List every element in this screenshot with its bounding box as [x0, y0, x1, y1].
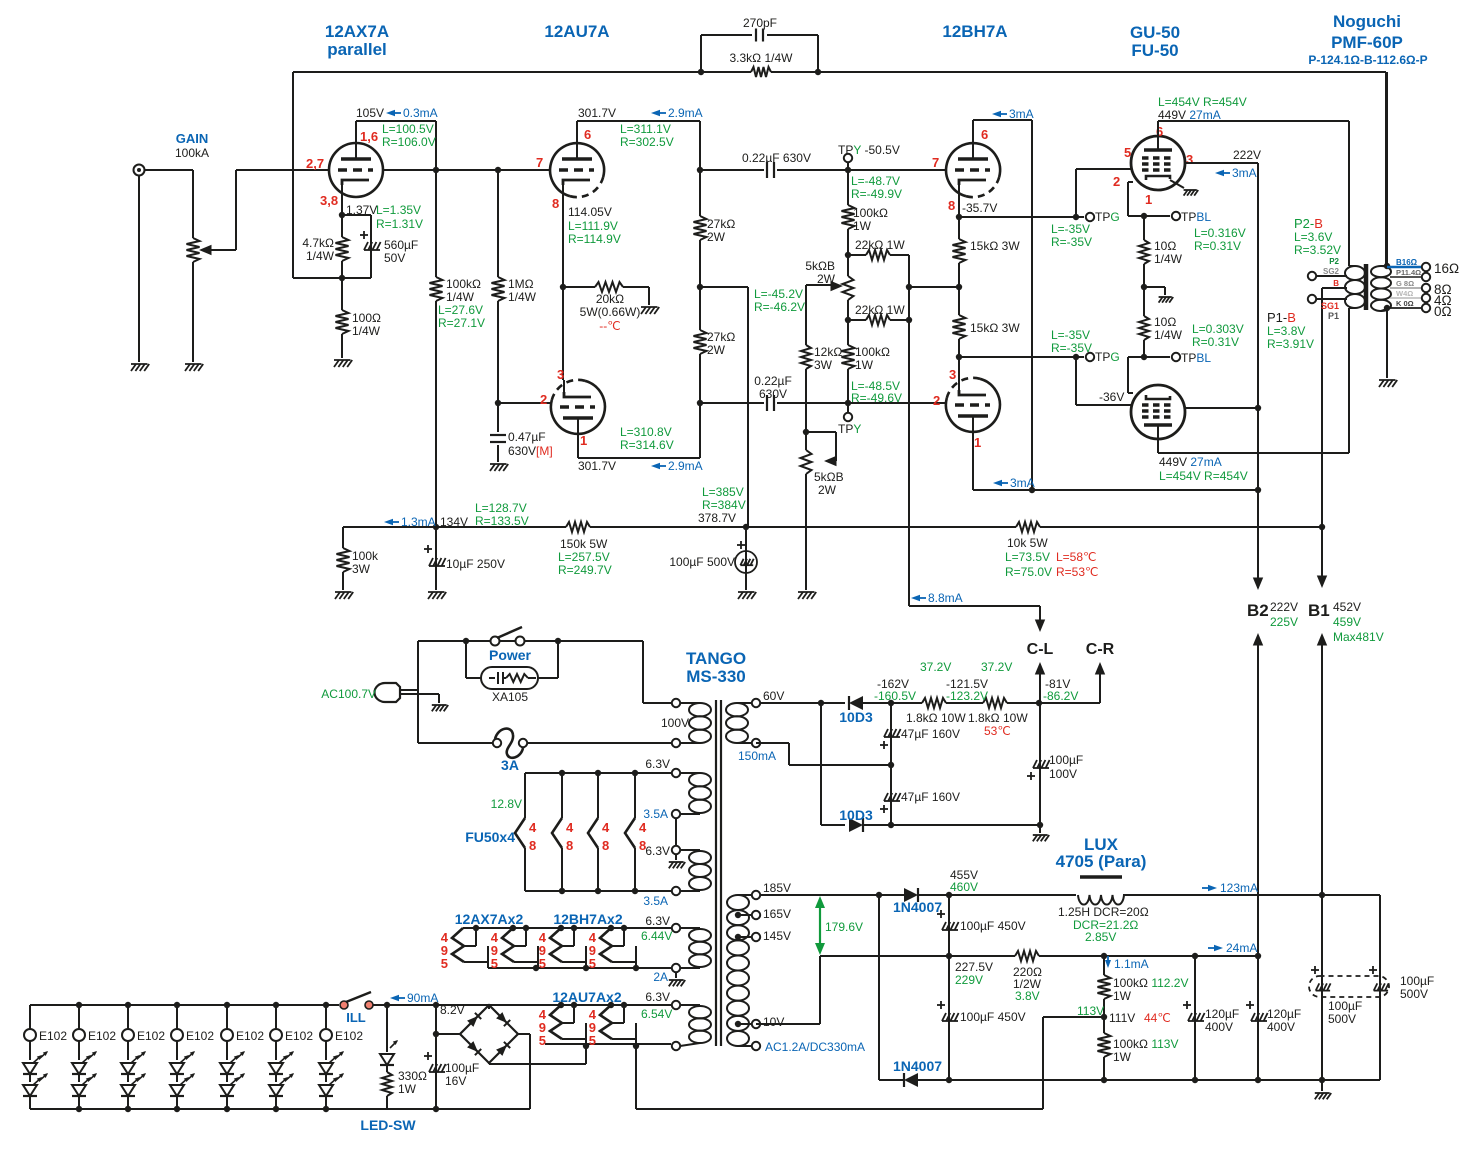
- svg-text:53℃: 53℃: [984, 724, 1011, 738]
- svg-text:16Ω: 16Ω: [1434, 261, 1459, 276]
- svg-text:R=302.5V: R=302.5V: [620, 135, 674, 149]
- svg-text:TPY: TPY: [838, 422, 861, 436]
- svg-text:GU-50: GU-50: [1130, 23, 1180, 42]
- svg-text:10Ω: 10Ω: [1154, 239, 1176, 253]
- svg-text:L=454V R=454V: L=454V R=454V: [1159, 469, 1248, 483]
- svg-text:120µF: 120µF: [1267, 1007, 1301, 1021]
- svg-text:TANGO: TANGO: [686, 649, 746, 668]
- svg-text:449V 27mA: 449V 27mA: [1158, 108, 1221, 122]
- svg-text:-160.5V: -160.5V: [874, 689, 916, 703]
- svg-text:3mA: 3mA: [1232, 166, 1257, 180]
- svg-text:6: 6: [584, 127, 591, 142]
- svg-text:PMF-60P: PMF-60P: [1331, 33, 1403, 52]
- svg-text:Noguchi: Noguchi: [1333, 12, 1401, 31]
- svg-text:12AX7A: 12AX7A: [325, 22, 389, 41]
- svg-text:1.8kΩ 10W: 1.8kΩ 10W: [906, 711, 966, 725]
- svg-text:2: 2: [540, 392, 547, 407]
- svg-text:1W: 1W: [1113, 989, 1132, 1003]
- svg-text:6.3V: 6.3V: [645, 990, 670, 1004]
- svg-text:R=75.0V: R=75.0V: [1005, 565, 1052, 579]
- svg-text:3.3kΩ 1/4W: 3.3kΩ 1/4W: [730, 51, 794, 65]
- svg-text:1/4W: 1/4W: [352, 324, 381, 338]
- svg-text:10V: 10V: [763, 1015, 784, 1029]
- svg-text:-86.2V: -86.2V: [1043, 689, 1078, 703]
- svg-text:100V: 100V: [1049, 767, 1077, 781]
- svg-text:44℃: 44℃: [1144, 1011, 1171, 1025]
- svg-text:4: 4: [529, 820, 537, 835]
- svg-text:225V: 225V: [1270, 615, 1298, 629]
- svg-text:E102: E102: [236, 1029, 264, 1043]
- svg-text:5: 5: [589, 956, 596, 971]
- svg-text:R=-35V: R=-35V: [1051, 341, 1092, 355]
- svg-text:20kΩ: 20kΩ: [596, 292, 624, 306]
- svg-text:3mA: 3mA: [1009, 107, 1034, 121]
- svg-text:Power: Power: [489, 647, 532, 663]
- svg-text:B: B: [1333, 279, 1339, 288]
- svg-text:10k 5W: 10k 5W: [1007, 536, 1048, 550]
- svg-text:L=454V R=454V: L=454V R=454V: [1158, 95, 1247, 109]
- svg-text:L=-45.2V: L=-45.2V: [754, 287, 803, 301]
- svg-text:12AU7A: 12AU7A: [544, 22, 609, 41]
- svg-text:460V: 460V: [950, 880, 978, 894]
- svg-text:AC100.7V: AC100.7V: [321, 687, 376, 701]
- svg-text:3.8V: 3.8V: [1015, 989, 1040, 1003]
- svg-text:1/4W: 1/4W: [1154, 252, 1183, 266]
- svg-text:1/4W: 1/4W: [1154, 328, 1183, 342]
- svg-text:3.5A: 3.5A: [643, 807, 668, 821]
- svg-text:L=73.5V: L=73.5V: [1005, 550, 1050, 564]
- svg-text:0.47µF: 0.47µF: [508, 430, 546, 444]
- svg-text:5W(0.66W): 5W(0.66W): [580, 305, 641, 319]
- svg-text:179.6V: 179.6V: [825, 920, 863, 934]
- svg-text:P2-B: P2-B: [1294, 216, 1323, 231]
- svg-text:6.3V: 6.3V: [645, 914, 670, 928]
- svg-text:L=3.6V: L=3.6V: [1294, 230, 1332, 244]
- svg-text:L=385V: L=385V: [702, 485, 744, 499]
- svg-text:1.1mA: 1.1mA: [1114, 957, 1149, 971]
- svg-text:5: 5: [1124, 145, 1131, 160]
- svg-text:LED-SW: LED-SW: [360, 1117, 416, 1133]
- svg-text:1N4007: 1N4007: [893, 1058, 942, 1074]
- svg-text:10Ω: 10Ω: [1154, 315, 1176, 329]
- svg-text:2.9mA: 2.9mA: [668, 106, 703, 120]
- svg-text:-123.2V: -123.2V: [946, 689, 988, 703]
- svg-text:100kΩ 113V: 100kΩ 113V: [1113, 1037, 1178, 1051]
- svg-text:TPG: TPG: [1095, 210, 1120, 224]
- svg-text:2.9mA: 2.9mA: [668, 459, 703, 473]
- svg-text:301.7V: 301.7V: [578, 106, 616, 120]
- svg-text:5: 5: [491, 956, 498, 971]
- svg-text:12.8V: 12.8V: [491, 797, 522, 811]
- svg-text:100µF: 100µF: [1049, 753, 1083, 767]
- svg-text:301.7V: 301.7V: [578, 459, 616, 473]
- svg-text:L=-35V: L=-35V: [1051, 222, 1090, 236]
- svg-text:2,7: 2,7: [306, 156, 324, 171]
- svg-text:1,6: 1,6: [360, 129, 378, 144]
- svg-text:L=0.316V: L=0.316V: [1194, 226, 1246, 240]
- svg-text:L=-48.7V: L=-48.7V: [851, 174, 900, 188]
- svg-text:3W: 3W: [352, 562, 371, 576]
- svg-text:TPG: TPG: [1095, 350, 1120, 364]
- svg-text:60V: 60V: [763, 689, 784, 703]
- svg-text:L=3.8V: L=3.8V: [1267, 324, 1305, 338]
- svg-text:TPY -50.5V: TPY -50.5V: [838, 143, 900, 157]
- svg-text:R=384V: R=384V: [702, 498, 746, 512]
- svg-text:B16Ω: B16Ω: [1396, 258, 1418, 267]
- svg-text:E102: E102: [88, 1029, 116, 1043]
- svg-text:K 0Ω: K 0Ω: [1396, 299, 1414, 308]
- svg-text:3.5A: 3.5A: [643, 894, 668, 908]
- svg-text:1: 1: [974, 435, 981, 450]
- svg-text:G 8Ω: G 8Ω: [1396, 279, 1414, 288]
- svg-text:FU50x4: FU50x4: [465, 829, 515, 845]
- svg-text:5: 5: [441, 956, 448, 971]
- svg-text:2: 2: [933, 393, 940, 408]
- svg-text:150k 5W: 150k 5W: [560, 537, 608, 551]
- svg-text:5: 5: [589, 1033, 596, 1048]
- svg-text:2W: 2W: [707, 343, 726, 357]
- svg-text:50V: 50V: [384, 251, 405, 265]
- svg-text:2: 2: [1113, 174, 1120, 189]
- svg-text:8.8mA: 8.8mA: [928, 591, 963, 605]
- svg-text:R=0.31V: R=0.31V: [1192, 335, 1239, 349]
- svg-text:L=311.1V: L=311.1V: [620, 122, 671, 136]
- svg-text:47µF 160V: 47µF 160V: [901, 727, 960, 741]
- svg-text:P-124.1Ω-B-112.6Ω-P: P-124.1Ω-B-112.6Ω-P: [1308, 53, 1427, 67]
- svg-text:-36V: -36V: [1099, 390, 1124, 404]
- svg-text:E102: E102: [39, 1029, 67, 1043]
- svg-text:1W: 1W: [1113, 1050, 1132, 1064]
- svg-text:100Ω: 100Ω: [352, 311, 381, 325]
- svg-text:1W: 1W: [855, 358, 874, 372]
- svg-text:400V: 400V: [1205, 1020, 1233, 1034]
- svg-text:185V: 185V: [763, 881, 791, 895]
- svg-text:P1-B: P1-B: [1267, 310, 1296, 325]
- svg-text:105V: 105V: [356, 106, 384, 120]
- svg-text:37.2V: 37.2V: [920, 660, 951, 674]
- svg-text:C-R: C-R: [1086, 641, 1115, 658]
- svg-text:L=0.303V: L=0.303V: [1192, 322, 1244, 336]
- svg-text:6.3V: 6.3V: [645, 844, 670, 858]
- svg-text:AC1.2A/DC330mA: AC1.2A/DC330mA: [765, 1040, 865, 1054]
- svg-text:1N4007: 1N4007: [893, 899, 942, 915]
- svg-text:330Ω: 330Ω: [398, 1069, 427, 1083]
- svg-text:L=27.6V: L=27.6V: [438, 303, 483, 317]
- svg-text:378.7V: 378.7V: [698, 511, 736, 525]
- svg-text:100µF 450V: 100µF 450V: [960, 1010, 1026, 1024]
- svg-text:L=128.7V: L=128.7V: [475, 501, 527, 515]
- svg-text:630V[M]: 630V[M]: [508, 444, 553, 458]
- svg-text:R=-49.9V: R=-49.9V: [851, 187, 902, 201]
- svg-text:16V: 16V: [445, 1074, 466, 1088]
- svg-text:3,8: 3,8: [320, 193, 338, 208]
- svg-text:1W: 1W: [398, 1082, 417, 1096]
- svg-text:E102: E102: [285, 1029, 313, 1043]
- svg-text:6.54V: 6.54V: [641, 1007, 672, 1021]
- svg-text:3: 3: [1186, 152, 1193, 167]
- svg-text:1.3mA: 1.3mA: [401, 515, 436, 529]
- svg-text:L=1.35V: L=1.35V: [376, 203, 421, 217]
- svg-text:2.85V: 2.85V: [1085, 930, 1116, 944]
- svg-text:150mA: 150mA: [738, 749, 776, 763]
- svg-text:100kΩ: 100kΩ: [855, 345, 890, 359]
- svg-text:3: 3: [557, 367, 564, 382]
- svg-text:R=133.5V: R=133.5V: [475, 514, 529, 528]
- svg-text:SG1: SG1: [1321, 301, 1339, 311]
- svg-text:12AX7Ax2: 12AX7Ax2: [455, 911, 524, 927]
- svg-text:270pF: 270pF: [743, 16, 777, 30]
- svg-text:parallel: parallel: [327, 40, 387, 59]
- svg-text:114.05V: 114.05V: [568, 205, 612, 219]
- svg-text:1.37V: 1.37V: [346, 203, 377, 217]
- svg-text:--℃: --℃: [599, 319, 620, 333]
- svg-text:100k: 100k: [352, 549, 379, 563]
- svg-text:7: 7: [932, 155, 939, 170]
- svg-text:4: 4: [566, 820, 574, 835]
- svg-text:459V: 459V: [1333, 615, 1361, 629]
- svg-text:E102: E102: [186, 1029, 214, 1043]
- svg-text:560µF: 560µF: [384, 238, 418, 252]
- svg-text:452V: 452V: [1333, 600, 1361, 614]
- svg-text:24mA: 24mA: [1226, 941, 1257, 955]
- svg-text:1/4W: 1/4W: [446, 290, 475, 304]
- svg-text:L=100.5V: L=100.5V: [382, 122, 434, 136]
- svg-text:3A: 3A: [501, 757, 519, 773]
- svg-text:0.22µF: 0.22µF: [754, 374, 792, 388]
- svg-text:R=3.52V: R=3.52V: [1294, 243, 1341, 257]
- svg-text:1/4W: 1/4W: [306, 249, 335, 263]
- svg-text:90mA: 90mA: [407, 991, 438, 1005]
- svg-text:37.2V: 37.2V: [981, 660, 1012, 674]
- svg-text:100kΩ: 100kΩ: [853, 206, 888, 220]
- svg-text:6.44V: 6.44V: [641, 929, 672, 943]
- svg-text:R=114.9V: R=114.9V: [568, 232, 621, 246]
- svg-text:8: 8: [639, 838, 646, 853]
- svg-text:L=58℃: L=58℃: [1056, 550, 1097, 564]
- svg-text:5: 5: [539, 1033, 546, 1048]
- svg-text:-35.7V: -35.7V: [962, 201, 997, 215]
- svg-text:TPBL: TPBL: [1181, 351, 1211, 365]
- svg-text:2A: 2A: [653, 970, 668, 984]
- svg-text:227.5V: 227.5V: [955, 960, 993, 974]
- svg-text:8: 8: [948, 198, 955, 213]
- svg-text:449V 27mA: 449V 27mA: [1159, 455, 1222, 469]
- svg-text:10µF 250V: 10µF 250V: [446, 557, 505, 571]
- svg-text:100µF: 100µF: [1328, 999, 1362, 1013]
- svg-text:15kΩ 3W: 15kΩ 3W: [970, 239, 1020, 253]
- svg-text:22kΩ 1W: 22kΩ 1W: [855, 238, 905, 252]
- svg-text:P1: P1: [1328, 311, 1339, 321]
- svg-text:4.7kΩ: 4.7kΩ: [302, 236, 334, 250]
- svg-text:400V: 400V: [1267, 1020, 1295, 1034]
- svg-text:0Ω: 0Ω: [1434, 304, 1452, 319]
- svg-text:27kΩ: 27kΩ: [707, 217, 735, 231]
- svg-text:3W: 3W: [814, 358, 833, 372]
- svg-text:100µF 500V: 100µF 500V: [669, 555, 735, 569]
- svg-text:1: 1: [1145, 192, 1152, 207]
- svg-text:8: 8: [529, 838, 536, 853]
- svg-text:R=1.31V: R=1.31V: [376, 217, 423, 231]
- svg-text:145V: 145V: [763, 929, 791, 943]
- svg-text:4: 4: [602, 820, 610, 835]
- svg-text:1W: 1W: [853, 219, 872, 233]
- svg-text:W4Ω: W4Ω: [1396, 289, 1413, 298]
- svg-text:R=314.6V: R=314.6V: [620, 438, 674, 452]
- svg-text:100kΩ 112.2V: 100kΩ 112.2V: [1113, 976, 1188, 990]
- svg-text:100kΩ: 100kΩ: [446, 277, 481, 291]
- svg-text:22kΩ 1W: 22kΩ 1W: [855, 303, 905, 317]
- svg-text:R=3.91V: R=3.91V: [1267, 337, 1314, 351]
- svg-text:R=27.1V: R=27.1V: [438, 316, 485, 330]
- svg-text:15kΩ 3W: 15kΩ 3W: [970, 321, 1020, 335]
- svg-text:222V: 222V: [1270, 600, 1298, 614]
- svg-text:120µF: 120µF: [1205, 1007, 1239, 1021]
- svg-text:12kΩ: 12kΩ: [814, 345, 842, 359]
- svg-text:8: 8: [602, 838, 609, 853]
- svg-text:R=106.0V: R=106.0V: [382, 135, 436, 149]
- svg-text:SG2: SG2: [1323, 267, 1340, 276]
- svg-text:L=257.5V: L=257.5V: [558, 550, 610, 564]
- svg-text:6.3V: 6.3V: [645, 757, 670, 771]
- svg-text:L=-35V: L=-35V: [1051, 328, 1090, 342]
- svg-text:1MΩ: 1MΩ: [508, 277, 534, 291]
- svg-text:R=249.7V: R=249.7V: [558, 563, 612, 577]
- svg-text:5kΩB: 5kΩB: [814, 470, 844, 484]
- svg-text:R=0.31V: R=0.31V: [1194, 239, 1241, 253]
- svg-text:165V: 165V: [763, 907, 791, 921]
- svg-text:L=310.8V: L=310.8V: [620, 425, 672, 439]
- svg-text:500V: 500V: [1328, 1012, 1356, 1026]
- svg-text:2W: 2W: [707, 230, 726, 244]
- svg-text:123mA: 123mA: [1220, 881, 1258, 895]
- svg-text:100µF 450V: 100µF 450V: [960, 919, 1026, 933]
- svg-text:1: 1: [580, 433, 587, 448]
- svg-text:R=-46.2V: R=-46.2V: [754, 300, 805, 314]
- svg-text:2W: 2W: [817, 272, 836, 286]
- svg-text:10D3: 10D3: [839, 807, 873, 823]
- svg-text:4: 4: [639, 820, 647, 835]
- svg-text:8.2V: 8.2V: [440, 1003, 465, 1017]
- svg-text:12BH7Ax2: 12BH7Ax2: [553, 911, 622, 927]
- svg-text:3mA: 3mA: [1010, 476, 1035, 490]
- svg-text:Max481V: Max481V: [1333, 630, 1384, 644]
- svg-text:5: 5: [539, 956, 546, 971]
- svg-text:630V: 630V: [759, 387, 787, 401]
- svg-text:500V: 500V: [1400, 987, 1428, 1001]
- svg-text:2W: 2W: [818, 483, 837, 497]
- svg-text:229V: 229V: [955, 973, 983, 987]
- svg-text:TPBL: TPBL: [1181, 210, 1211, 224]
- svg-text:5kΩB: 5kΩB: [805, 259, 835, 273]
- svg-text:B1: B1: [1308, 601, 1330, 620]
- svg-text:R=-35V: R=-35V: [1051, 235, 1092, 249]
- svg-text:1/4W: 1/4W: [508, 290, 537, 304]
- svg-text:0.3mA: 0.3mA: [403, 106, 438, 120]
- svg-text:P2: P2: [1329, 257, 1339, 266]
- svg-text:XA105: XA105: [492, 690, 528, 704]
- svg-text:100µF: 100µF: [1400, 974, 1434, 988]
- svg-text:R=53℃: R=53℃: [1056, 565, 1099, 579]
- svg-text:27kΩ: 27kΩ: [707, 330, 735, 344]
- svg-text:B2: B2: [1247, 601, 1269, 620]
- svg-text:12BH7A: 12BH7A: [942, 22, 1007, 41]
- svg-text:1.8kΩ 10W: 1.8kΩ 10W: [968, 711, 1028, 725]
- svg-text:0.22µF 630V: 0.22µF 630V: [742, 151, 811, 165]
- svg-text:10D3: 10D3: [839, 709, 873, 725]
- svg-text:MS-330: MS-330: [686, 667, 746, 686]
- svg-text:FU-50: FU-50: [1131, 41, 1178, 60]
- svg-text:100V: 100V: [661, 716, 689, 730]
- svg-text:113V: 113V: [1077, 1004, 1104, 1018]
- svg-text:4705 (Para): 4705 (Para): [1056, 852, 1147, 871]
- svg-text:8: 8: [566, 838, 573, 853]
- svg-text:P11.4Ω: P11.4Ω: [1396, 268, 1421, 277]
- svg-text:100kA: 100kA: [175, 146, 209, 160]
- svg-text:ILL: ILL: [346, 1010, 366, 1025]
- svg-text:100µF: 100µF: [445, 1061, 479, 1075]
- svg-text:E102: E102: [335, 1029, 363, 1043]
- svg-text:3: 3: [949, 367, 956, 382]
- svg-text:1.25H DCR=20Ω: 1.25H DCR=20Ω: [1058, 905, 1149, 919]
- svg-text:222V: 222V: [1233, 148, 1261, 162]
- svg-text:134V: 134V: [440, 515, 468, 529]
- svg-text:47µF 160V: 47µF 160V: [901, 790, 960, 804]
- svg-text:GAIN: GAIN: [176, 131, 209, 146]
- svg-text:8: 8: [552, 196, 559, 211]
- svg-text:111V: 111V: [1109, 1011, 1135, 1025]
- svg-text:E102: E102: [137, 1029, 165, 1043]
- svg-text:C-L: C-L: [1027, 641, 1054, 658]
- svg-text:6: 6: [981, 127, 988, 142]
- svg-text:L=111.9V: L=111.9V: [568, 219, 618, 233]
- svg-text:7: 7: [536, 155, 543, 170]
